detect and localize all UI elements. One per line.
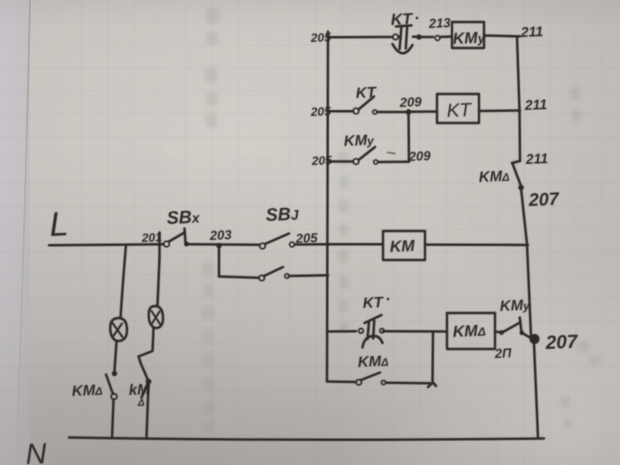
stray pen dash (388, 153, 396, 154)
wire SBJ parallel branch vertical (218, 246, 221, 277)
wire right bus vertical middle (521, 188, 531, 336)
wire junction 209 vertical (407, 112, 410, 162)
wire KMY coil to node 211 (484, 34, 520, 37)
wire row3 contact to junction (378, 161, 409, 164)
pushbutton SBJ NO start (260, 234, 295, 249)
svg-text:205: 205 (294, 230, 318, 246)
wire rowB left bus stub (327, 380, 356, 383)
relay contact KMdelta NO (lamp1) (106, 371, 117, 399)
relay contact KM NO self-hold (259, 267, 289, 281)
wire right bus vertical top (517, 37, 520, 162)
wire row1 left (328, 36, 392, 39)
wire row2 contact to node 209 (377, 111, 408, 114)
junction tick mark (428, 383, 436, 388)
wire rowA left (327, 330, 356, 333)
wire L rail 205 (295, 243, 384, 246)
indicator lamp HL1 (110, 318, 127, 341)
svg-text:209: 209 (398, 94, 422, 110)
svg-text:205: 205 (311, 153, 333, 168)
timer coil KT box (437, 94, 479, 123)
svg-text:KMy: KMy (452, 30, 486, 48)
contactor coil KM box (383, 231, 425, 260)
wire L rail 201-203 (189, 243, 260, 246)
svg-text:KMΔ: KMΔ (452, 323, 486, 341)
svg-text:KT: KT (446, 100, 473, 122)
wire N rail (69, 438, 544, 440)
dot after KT top (416, 17, 419, 20)
relay contact KM NO (lamp2) (142, 379, 151, 397)
svg-text:SBx: SBx (166, 207, 201, 228)
svg-text:KMy: KMy (343, 132, 375, 150)
svg-text:209: 209 (407, 148, 431, 164)
wire junction vertical rowA-rowB (431, 332, 434, 384)
wire L rail left (49, 243, 164, 246)
wire node209 to KT coil (411, 110, 437, 113)
wire lamp2 zigzag to contact (139, 329, 154, 380)
timer contact KT (bottom, timed) (359, 315, 384, 348)
pushbutton SBx NC stop (164, 229, 189, 247)
svg-text:211: 211 (519, 23, 543, 40)
wire KT coil to right bus (479, 109, 520, 112)
svg-text:2Π: 2Π (493, 345, 512, 361)
wire KMdelta coil to contact (495, 331, 499, 334)
svg-text:kM: kM (128, 381, 150, 399)
relay contact KMY NO (row3) (353, 147, 378, 164)
indicator lamp HL2 (149, 306, 163, 328)
svg-text:KT: KT (390, 11, 413, 29)
wire KM contact to left bus (289, 274, 328, 277)
svg-text:207: 207 (527, 189, 560, 210)
wire SBJ parallel branch horizontal (219, 277, 259, 278)
wire L rail right of KM coil (425, 243, 528, 246)
wire row2 left (328, 110, 353, 113)
svg-text:205: 205 (310, 104, 332, 119)
relay contact KMdelta NC on right bus (512, 161, 523, 190)
wire row3 left (328, 160, 353, 163)
svg-text:201: 201 (141, 230, 163, 245)
wire rowB to junction (386, 381, 430, 384)
wire right bus vertical bottom (534, 343, 538, 438)
wire lamp1 to contact (115, 342, 117, 372)
wire rowA contact to KMdelta coil (383, 330, 447, 333)
svg-text:KM: KM (389, 238, 415, 256)
node 213 terminal (435, 36, 440, 41)
svg-text:205: 205 (310, 30, 332, 45)
svg-text:SBJ: SBJ (265, 204, 300, 225)
svg-text:207: 207 (544, 332, 579, 354)
svg-text:KT: KT (362, 294, 385, 312)
timer contact KT (top, timed) (393, 25, 421, 53)
svg-text:KT: KT (355, 84, 378, 102)
dot after KT bottom (387, 298, 390, 301)
svg-text:KMy: KMy (499, 297, 531, 315)
relay contact KT NO (row2) (353, 97, 377, 115)
wire lamp2 branch top (158, 258, 160, 305)
svg-text:203: 203 (208, 227, 232, 243)
wire lamp2 contact to N (147, 384, 149, 438)
node 203 junction (217, 243, 222, 248)
ink drawing (49, 22, 544, 440)
relay contact KMdelta NO (rowB) (356, 373, 386, 385)
svg-text:211: 211 (523, 96, 547, 113)
node 209 junction (406, 110, 411, 115)
svg-text:Δ: Δ (137, 398, 145, 409)
svg-text:N: N (25, 438, 47, 465)
wire 213 to KMY coil (440, 35, 452, 38)
svg-text:211: 211 (524, 150, 548, 167)
wire left bus vertical (327, 32, 328, 382)
contactor coil KMdelta box (447, 313, 495, 349)
svg-text:213: 213 (427, 15, 451, 31)
pushbutton branch tick node 201 (158, 233, 161, 259)
wire row1 middle (421, 36, 433, 39)
svg-text:L: L (49, 205, 70, 244)
contactor coil KMY box (452, 22, 484, 48)
wire lamp1 branch top (121, 245, 127, 318)
relay contact KMY NC interlock (500, 318, 530, 338)
wire lamp1 contact to N (112, 400, 114, 439)
bleed-through smudges (205, 8, 599, 428)
node 207 big dot (530, 334, 539, 343)
